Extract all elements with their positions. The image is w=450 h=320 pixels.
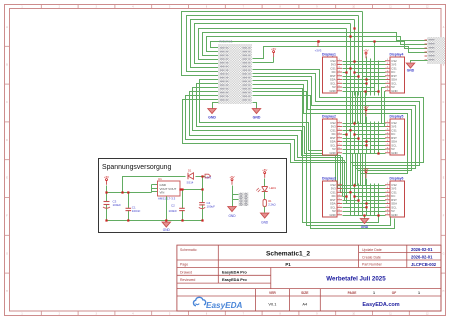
- wire VOUT to flag node vertical: [202, 177, 204, 190]
- svg-text:+5V: +5V: [229, 175, 234, 179]
- ground near J1: [406, 63, 414, 68]
- power flag +5V display bus top: [363, 49, 368, 59]
- wire U1 pin stubs: [151, 185, 153, 193]
- svg-text:Drawed: Drawed: [180, 270, 192, 274]
- svg-text:EasyEDA: EasyEDA: [206, 301, 242, 310]
- svg-text:SIZE: SIZE: [301, 291, 309, 295]
- microcontroller module Arduino1: [218, 40, 252, 105]
- svg-text:Display6: Display6: [390, 177, 404, 181]
- power flag +5V input: [104, 175, 109, 185]
- svg-text:2026-02-01: 2026-02-01: [411, 255, 433, 260]
- svg-text:Spannungsversorgung: Spannungsversorgung: [102, 164, 172, 171]
- display connector Display1: [322, 53, 342, 94]
- svg-text:100uF: 100uF: [207, 205, 216, 209]
- svg-text:+5V: +5V: [104, 175, 109, 179]
- svg-text:P1: P1: [285, 262, 291, 267]
- svg-text:Arduino1: Arduino1: [219, 40, 233, 44]
- LED LED1: [256, 186, 276, 192]
- ground LED branch: [261, 213, 269, 218]
- regulator U1: [158, 177, 181, 201]
- wire diode branch riser: [123, 177, 186, 193]
- wire +5V input rail: [106, 186, 108, 221]
- wire +5V to LED: [264, 179, 266, 187]
- ground under U2 right: [252, 109, 260, 114]
- svg-text:V0.1: V0.1: [268, 302, 276, 307]
- ground power box: [162, 222, 170, 227]
- svg-text:1: 1: [373, 291, 375, 295]
- display connector Display5: [385, 115, 405, 156]
- svg-text:Display5: Display5: [390, 115, 404, 119]
- wire U2 GND left: [213, 103, 219, 109]
- svg-text:Reviewed: Reviewed: [180, 278, 195, 282]
- bus verticals between display columns: [347, 12, 386, 216]
- svg-text:SS14: SS14: [187, 181, 194, 185]
- svg-text:A4: A4: [302, 302, 308, 307]
- wire J1 GND: [411, 61, 428, 63]
- svg-text:G: G: [6, 253, 8, 255]
- wire U1 VOUT node: [181, 189, 203, 191]
- svg-text:Part Number: Part Number: [362, 263, 383, 267]
- ground J2: [228, 207, 236, 212]
- net label +3V3: [315, 40, 322, 52]
- svg-text:LED1: LED1: [270, 186, 277, 190]
- svg-text:GND: GND: [391, 213, 397, 217]
- svg-text:GND: GND: [163, 228, 171, 232]
- wire +5V to J2: [232, 186, 234, 207]
- wire display row3 GND bus: [343, 216, 365, 219]
- svg-text:Display4: Display4: [390, 53, 404, 57]
- svg-text:Werbetafel Juli 2025: Werbetafel Juli 2025: [326, 276, 386, 283]
- svg-text:GND: GND: [391, 151, 397, 155]
- power flag +5V near U2: [271, 47, 276, 57]
- svg-text:Schematic1_2: Schematic1_2: [266, 250, 310, 257]
- svg-text:VER: VER: [269, 291, 276, 295]
- svg-text:PAGE: PAGE: [348, 291, 357, 295]
- svg-text:Update Date: Update Date: [362, 248, 382, 252]
- capacitor C4: [199, 190, 215, 221]
- svg-text:Display2: Display2: [322, 115, 336, 119]
- svg-text:D1: D1: [188, 169, 192, 173]
- power flag +5V display bus middle: [363, 105, 368, 116]
- svg-text:+5V: +5V: [363, 167, 368, 171]
- capacitor C2: [169, 190, 185, 221]
- junction dots power box: [105, 175, 203, 221]
- wire U1 GND down: [166, 197, 168, 221]
- svg-text:U1: U1: [158, 177, 162, 181]
- svg-text:+5V: +5V: [363, 105, 368, 109]
- svg-text:GND: GND: [228, 214, 236, 218]
- svg-text:Schematic:: Schematic:: [180, 248, 197, 252]
- svg-text:GND: GND: [329, 89, 335, 93]
- svg-text:+3V3: +3V3: [205, 175, 212, 179]
- wire diode output: [196, 176, 206, 178]
- svg-text:GND: GND: [407, 69, 415, 73]
- display connector Display2: [322, 115, 342, 156]
- title block: [177, 245, 441, 311]
- svg-text:GND: GND: [208, 116, 216, 120]
- power flag +5V display bus bottom: [363, 167, 368, 178]
- capacitor C3: [103, 200, 121, 209]
- wire LED to R1: [264, 192, 266, 200]
- wire ground rail: [107, 220, 203, 222]
- svg-text:Display3: Display3: [322, 177, 336, 181]
- net port +3V3 output: [205, 174, 212, 179]
- svg-text:+5V: +5V: [271, 47, 276, 51]
- svg-text:G: G: [443, 253, 445, 255]
- svg-text:JLCPCB-002: JLCPCB-002: [411, 262, 437, 267]
- wire R1 to GND: [264, 207, 266, 213]
- svg-text:C2: C2: [171, 204, 175, 208]
- display connector Display4: [385, 53, 405, 94]
- junction dots on display bus: [345, 27, 379, 216]
- svg-text:GND: GND: [361, 225, 369, 229]
- svg-text:EasyEDA.com: EasyEDA.com: [362, 302, 399, 308]
- pin header J1: [425, 37, 446, 64]
- svg-text:100nF: 100nF: [169, 209, 178, 213]
- svg-text:GND: GND: [391, 89, 397, 93]
- wire U2 +5V pin: [253, 62, 274, 64]
- svg-text:2026-02-01: 2026-02-01: [411, 247, 433, 252]
- svg-text:GND: GND: [261, 221, 269, 225]
- power flag +5V LED: [262, 168, 267, 178]
- svg-text:100nF: 100nF: [132, 209, 141, 213]
- svg-text:GND: GND: [253, 116, 261, 120]
- svg-text:1: 1: [418, 291, 420, 295]
- svg-text:EasyEDA Pro: EasyEDA Pro: [222, 277, 247, 282]
- svg-text:OF: OF: [392, 291, 396, 295]
- pin header J2: [239, 193, 249, 207]
- diode D1 SS14: [187, 169, 194, 185]
- wire input rail horizontal: [107, 192, 152, 194]
- wire +5V to U2: [273, 57, 275, 63]
- EasyEDA logo: [193, 297, 242, 310]
- svg-text:+3V3: +3V3: [315, 49, 322, 53]
- svg-text:Create Date: Create Date: [362, 255, 381, 259]
- svg-text:+5V: +5V: [363, 49, 368, 53]
- power supply section box Spannungsversorgung: [99, 159, 287, 233]
- capacitor C1: [126, 193, 141, 221]
- wire U2 TX to J1: [253, 47, 428, 59]
- power flag +5V header: [229, 175, 234, 185]
- wire bus U2 left pins to top edge: [182, 12, 428, 76]
- svg-text:100uF: 100uF: [113, 203, 122, 207]
- ground under U2 left: [208, 109, 216, 114]
- resistor R1: [263, 199, 276, 207]
- display connector Display6: [385, 177, 405, 218]
- svg-text:2.2kΩ: 2.2kΩ: [268, 203, 275, 207]
- wire bus U2 right pins around displays: [253, 70, 424, 229]
- svg-text:Page: Page: [180, 263, 188, 267]
- svg-text:GND: GND: [329, 151, 335, 155]
- svg-text:+5V: +5V: [262, 168, 267, 172]
- svg-text:VIN: VIN: [160, 191, 165, 195]
- wire U2 GND right: [253, 103, 257, 109]
- svg-text:EasyEDA Pro: EasyEDA Pro: [222, 269, 247, 274]
- wire bus U2 lower left pins to Display3: [183, 80, 347, 204]
- svg-text:GND: GND: [329, 213, 335, 217]
- ground below Display3/6: [360, 219, 368, 224]
- display connector Display3: [322, 177, 342, 218]
- wires display pins to bus: [343, 62, 386, 216]
- svg-text:Display1: Display1: [322, 53, 336, 57]
